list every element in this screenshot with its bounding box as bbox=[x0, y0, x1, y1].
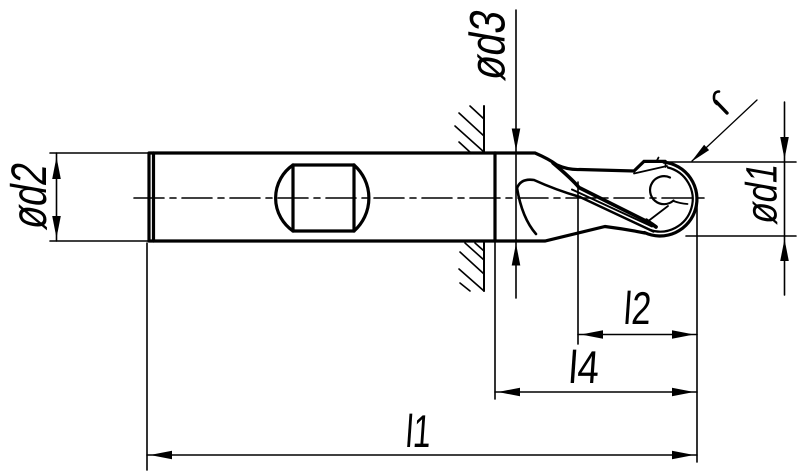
ball inner arc bbox=[650, 168, 693, 232]
flute inner diagonal bbox=[649, 206, 668, 221]
arrow d2 top bbox=[52, 157, 61, 179]
shank end face line bbox=[152, 153, 155, 241]
dim d2 ext lines bbox=[50, 153, 148, 241]
svg-text:ød2: ød2 bbox=[0, 158, 57, 233]
neck bottom profile bbox=[495, 227, 645, 242]
ball outer arc bbox=[645, 162, 697, 236]
neck top shoulder bbox=[495, 153, 665, 171]
weldon flat bbox=[293, 165, 354, 231]
arrow d3 bottom bbox=[512, 244, 521, 266]
land notch vertical bbox=[665, 161, 667, 167]
flute corner fill line bbox=[647, 220, 657, 227]
arrow d1 bottom bbox=[780, 239, 789, 261]
hatch top bbox=[455, 106, 484, 153]
hatch bottom bbox=[459, 243, 484, 291]
eye circle bbox=[650, 176, 673, 204]
arrow l1 right bbox=[672, 451, 694, 460]
svg-text:l4: l4 bbox=[567, 341, 601, 393]
leader r bbox=[692, 100, 757, 161]
arrow l2 right bbox=[672, 330, 694, 339]
arrow d2 bottom bbox=[52, 216, 61, 238]
shank step line bbox=[493, 153, 496, 241]
label r bbox=[714, 92, 727, 114]
dim d2 line bbox=[56, 153, 58, 241]
ext line tip bbox=[696, 195, 698, 462]
arrow d1 top bbox=[780, 137, 789, 159]
shank outline bbox=[149, 153, 495, 241]
svg-text:ød3: ød3 bbox=[459, 5, 516, 84]
wall edge bottom bbox=[483, 241, 485, 291]
wall edge top bbox=[483, 106, 485, 153]
arrow r leader bbox=[691, 145, 709, 162]
flute heel curve bbox=[517, 180, 580, 197]
flute gash front edge bbox=[517, 188, 536, 234]
svg-text:l1: l1 bbox=[404, 405, 433, 457]
arrow l4 right bbox=[672, 388, 694, 397]
ext line step bbox=[494, 241, 496, 399]
arrow d3 top bbox=[512, 129, 521, 151]
cutting edge band line B2 bbox=[580, 197, 654, 232]
ext line shank left bbox=[146, 243, 148, 470]
dim d3 line bbox=[515, 10, 517, 298]
dim l1 line bbox=[147, 454, 697, 456]
land inner sloped line bbox=[634, 166, 667, 174]
svg-text:l2: l2 bbox=[622, 282, 653, 334]
arrow l2 left bbox=[581, 330, 603, 339]
dim l4 line bbox=[495, 391, 697, 393]
centerline bbox=[134, 197, 705, 199]
land tick bbox=[657, 158, 659, 162]
eye to inner-arc link bbox=[674, 201, 688, 204]
arrow l1 left bbox=[150, 451, 172, 460]
svg-text:ød1: ød1 bbox=[738, 159, 787, 228]
cutting edge band line B3 bbox=[572, 190, 652, 227]
dim d1 line bbox=[784, 102, 786, 295]
ext line l2 left bbox=[577, 182, 579, 344]
dim l2 line bbox=[578, 334, 697, 336]
dim d1 ext lines bbox=[663, 162, 796, 236]
cutting edge band line B1 bbox=[553, 163, 656, 227]
arrow l4 left bbox=[498, 388, 520, 397]
